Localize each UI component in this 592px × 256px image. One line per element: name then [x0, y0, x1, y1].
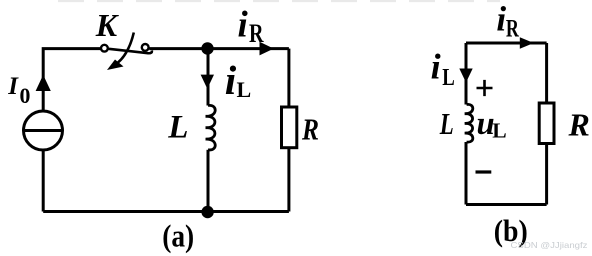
svg-text:R: R: [249, 18, 264, 48]
wire: circuit a bottom: [43, 210, 289, 213]
svg-text:CSDN @JJjiangfz: CSDN @JJjiangfz: [511, 240, 588, 250]
label uL (circuit b): [477, 106, 507, 142]
wire: circuit a top-left segment: [43, 49, 100, 111]
label (a): [162, 217, 194, 253]
svg-text:i: i: [225, 57, 237, 103]
current source I0 circle: [24, 111, 63, 150]
svg-text:L: L: [442, 64, 455, 91]
watermark CSDN @JJjiangfz: [511, 240, 588, 250]
wire: circuit a left branch below source: [42, 151, 45, 212]
resistor R (circuit a): [282, 107, 297, 148]
label iR (circuit a): [238, 4, 264, 48]
label I0: [7, 73, 30, 108]
wire: circuit b top: [466, 42, 547, 45]
wire: circuit b bottom: [466, 203, 547, 206]
switch K left contact circle: [101, 45, 108, 52]
switch K blade: [109, 49, 152, 53]
svg-text:L: L: [167, 110, 188, 146]
svg-text:i: i: [496, 0, 506, 39]
wire: circuit a middle branch lower: [207, 150, 210, 212]
svg-text:K: K: [95, 7, 120, 43]
cropped text remnants at top edge: [58, 0, 500, 2]
svg-text:R: R: [568, 106, 590, 142]
svg-text:I: I: [7, 73, 19, 100]
label L (circuit a): [167, 110, 188, 146]
current arrow iR (circuit b) on top wire: [520, 37, 534, 49]
wire: circuit a right branch below resistor: [287, 148, 290, 212]
svg-text:R: R: [301, 112, 319, 147]
wire: circuit a middle branch upper: [207, 49, 210, 106]
wire: circuit b left branch down to inductor: [465, 43, 468, 105]
resistor R (circuit b): [539, 103, 554, 144]
svg-text:(a): (a): [162, 217, 194, 253]
current arrow iR (circuit a) on top wire: [260, 42, 274, 56]
inductor L (circuit a) coil: [206, 105, 216, 150]
label K: [95, 7, 120, 43]
svg-text:R: R: [506, 14, 519, 43]
svg-text:0: 0: [20, 84, 31, 108]
svg-text:L: L: [439, 107, 454, 141]
label iR (circuit b): [496, 0, 519, 43]
wire: circuit b right branch below resistor: [545, 145, 548, 205]
label (b): [494, 213, 528, 248]
node: bottom junction of inductor branch: [201, 206, 213, 218]
wire: circuit b left branch below inductor: [465, 142, 468, 205]
plus sign (b): [477, 80, 493, 96]
wire: circuit a top segment from switch to top-right corner: [149, 47, 289, 50]
switch K right contact circle: [142, 44, 149, 51]
svg-text:i: i: [431, 47, 441, 87]
minus sign (b): [476, 170, 492, 173]
current arrow iL (circuit b) on left wire: [459, 69, 472, 83]
svg-text:L: L: [492, 118, 506, 142]
label R (circuit a): [301, 112, 319, 147]
current arrow iL (circuit a) on middle branch: [201, 75, 214, 89]
svg-text:i: i: [238, 4, 249, 45]
label iL (circuit b): [431, 47, 455, 92]
switch K opening arc arrow: [107, 33, 134, 71]
wire: circuit b right branch above resistor: [545, 43, 548, 103]
label iL (circuit a): [225, 57, 251, 103]
svg-text:L: L: [237, 77, 252, 102]
current source arrow (up): [36, 76, 50, 91]
label L (circuit b): [439, 107, 454, 141]
wire: circuit a right branch above resistor: [287, 49, 290, 107]
inductor L (circuit b) coil: [465, 104, 473, 142]
label R (circuit b): [568, 106, 590, 142]
node: top junction of inductor branch: [201, 42, 213, 54]
